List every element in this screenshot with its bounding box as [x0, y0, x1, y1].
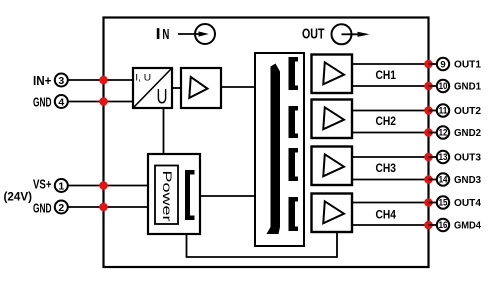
wire VS+ to power module — [68, 185, 148, 187]
svg-text:16: 16 — [439, 220, 448, 230]
svg-text:3: 3 — [58, 75, 64, 87]
junction dot IN+ — [99, 76, 108, 85]
svg-text:CH1: CH1 — [376, 70, 397, 82]
I/U converter box — [133, 68, 172, 109]
power module box — [148, 154, 200, 234]
wire IN+ to I/U converter — [68, 79, 133, 81]
svg-text:CH4: CH4 — [376, 209, 397, 221]
svg-text:I, U: I, U — [135, 72, 151, 83]
svg-text:OUT1: OUT1 — [454, 59, 481, 71]
svg-text:10: 10 — [439, 81, 448, 91]
terminal 2 GND — [33, 201, 68, 216]
junction dot VS+ — [99, 181, 108, 190]
svg-text:IN+: IN+ — [33, 74, 52, 88]
CH4 output amplifier — [312, 194, 353, 233]
wire CH2 gnd — [352, 132, 429, 134]
terminal 4 GND — [33, 95, 68, 109]
svg-text:OUT2: OUT2 — [454, 105, 481, 117]
wire CH3 gnd — [352, 179, 429, 181]
secondary winding 1 — [289, 57, 299, 90]
CH2 output amplifier — [312, 100, 353, 139]
wire CH2 out — [352, 110, 429, 112]
CH1 output amplifier — [312, 55, 353, 94]
supply rail power module to CH4 amp — [187, 232, 338, 257]
wire CH4 gnd — [352, 224, 429, 226]
wire GND to I/U converter — [68, 101, 133, 103]
svg-text:Power: Power — [160, 171, 174, 222]
wire input amp to transformer — [221, 86, 255, 88]
svg-text:OUT: OUT — [302, 27, 325, 43]
secondary winding 2 — [289, 106, 299, 138]
module case outline — [104, 18, 429, 268]
svg-text:GND: GND — [33, 201, 52, 215]
junction dot GND — [99, 97, 108, 106]
svg-text:OUT3: OUT3 — [454, 152, 481, 164]
svg-text:VS+: VS+ — [33, 178, 52, 192]
IN flow legend — [157, 24, 215, 44]
wire GND to power module — [68, 206, 148, 208]
svg-text:(24V): (24V) — [4, 192, 33, 204]
power transformer primary winding — [185, 170, 195, 220]
terminal 14 GND3 — [424, 173, 481, 186]
wire CH1 gnd — [352, 85, 429, 87]
terminal 16 GMD4 — [424, 219, 481, 232]
isolation transformer box — [255, 53, 304, 246]
terminal 13 OUT3 — [424, 151, 481, 164]
terminal 1 VS+ — [33, 178, 68, 193]
wire CH4 out — [352, 202, 429, 204]
terminal 9 OUT1 — [424, 58, 481, 71]
svg-text:2: 2 — [58, 202, 64, 214]
svg-text:4: 4 — [58, 96, 64, 108]
wire CH1 out — [352, 63, 429, 65]
svg-text:GND3: GND3 — [454, 174, 481, 186]
svg-text:GMD4: GMD4 — [454, 220, 481, 232]
svg-text:U: U — [157, 86, 168, 109]
secondary winding 4 — [289, 197, 299, 231]
svg-text:9: 9 — [440, 60, 445, 71]
CH3 output amplifier — [312, 147, 353, 186]
wire I/U to input amp — [172, 87, 181, 89]
terminal 15 OUT4 — [424, 196, 481, 209]
svg-text:OUT4: OUT4 — [454, 197, 481, 209]
svg-text:GND1: GND1 — [454, 81, 481, 93]
svg-text:N: N — [162, 27, 169, 43]
svg-text:GND: GND — [33, 95, 52, 109]
svg-text:CH3: CH3 — [376, 163, 397, 175]
wire CH3 out — [352, 156, 429, 158]
terminal 12 GND2 — [424, 126, 481, 139]
input amplifier — [181, 68, 221, 108]
svg-text:12: 12 — [439, 128, 448, 138]
svg-text:CH2: CH2 — [376, 116, 397, 128]
OUT flow legend — [302, 24, 370, 44]
svg-text:13: 13 — [439, 152, 448, 162]
wire I/U converter to power module — [163, 108, 165, 154]
terminal 11 OUT2 — [424, 104, 481, 117]
svg-text:1: 1 — [58, 180, 64, 192]
svg-text:15: 15 — [439, 198, 448, 208]
terminal 3 IN+ — [33, 74, 68, 89]
secondary winding 3 — [289, 148, 299, 181]
terminal 10 GND1 — [424, 80, 481, 93]
svg-text:GND2: GND2 — [454, 127, 481, 139]
transformer primary winding — [267, 64, 281, 235]
wire power module to transformer — [200, 195, 255, 197]
junction dot GND2 — [99, 203, 108, 212]
svg-text:11: 11 — [439, 106, 448, 116]
svg-text:14: 14 — [439, 175, 448, 185]
